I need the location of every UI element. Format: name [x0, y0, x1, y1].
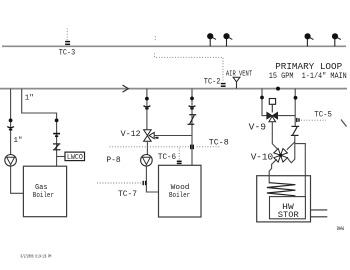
svg-text:AIR VENT: AIR VENT [226, 71, 252, 79]
air vent [233, 77, 240, 88]
svg-text:P-8: P-8 [106, 156, 120, 165]
sensor TC-5 [297, 118, 326, 122]
svg-text:TC-2: TC-2 [204, 78, 221, 87]
svg-text:STOR: STOR [278, 210, 299, 220]
svg-text:Boiler: Boiler [33, 192, 54, 200]
ball valve dot [260, 96, 264, 100]
wire branch to V-10 NE [287, 142, 295, 150]
wire V-9 drop [262, 89, 267, 116]
wire P-8 to wood boiler [146, 166, 158, 192]
ball valve dot [9, 119, 13, 123]
wire gas loop return riser [10, 89, 12, 155]
pump (gas boiler circulator) [5, 155, 17, 167]
primary loop line (second header) [0, 88, 347, 90]
gas boiler box [23, 166, 66, 217]
riser lollipop 3 [305, 33, 314, 46]
balance valve (gas) [53, 144, 61, 150]
svg-text:1": 1" [14, 137, 23, 145]
tank inner box [270, 197, 306, 219]
ball valve dot [294, 96, 298, 100]
wire V-10 to tank coil [269, 159, 277, 183]
sensor TC-6 [177, 148, 182, 164]
riser lollipop 1 [207, 33, 216, 46]
wire bypass to tank [295, 144, 306, 197]
balance valve (wood riser) [188, 115, 197, 125]
svg-text:Wood: Wood [171, 184, 190, 192]
sensor TC-7 [97, 181, 146, 185]
svg-text:Gas: Gas [35, 184, 48, 192]
svg-text:V-9: V-9 [249, 122, 266, 133]
sensor TC-2 dotted lead wire [155, 36, 223, 81]
valve V-9 (3-way) [267, 112, 278, 122]
wire V-12 to pump P-8 [146, 142, 148, 155]
svg-text:TC-7: TC-7 [118, 190, 137, 199]
wire pump to gas boiler [11, 166, 24, 193]
valve V-10 (4-way) [274, 149, 288, 163]
wire TC-5 riser [294, 89, 296, 127]
riser lollipop 2 [223, 33, 232, 46]
svg-text:TC-5: TC-5 [314, 111, 332, 120]
sensor TC-8 dotted line [110, 146, 221, 148]
svg-text:TC-6: TC-6 [158, 153, 176, 162]
valve V-12 (3-way) [144, 130, 159, 142]
wire balance valve to V-10 (SE) [287, 136, 295, 163]
svg-text:PRIMARY LOOP: PRIMARY LOOP [275, 61, 342, 72]
svg-text:TC-3: TC-3 [59, 49, 76, 58]
wire DHW return [311, 216, 328, 218]
wood boiler box [159, 165, 202, 217]
svg-text:DHW: DHW [337, 226, 345, 232]
valve V-9 actuator [269, 99, 275, 113]
svg-text:Boiler: Boiler [169, 192, 190, 200]
ball valve dot [55, 119, 59, 123]
svg-text:1": 1" [25, 94, 34, 102]
sensor TC-3 [65, 29, 70, 45]
sensor TC-2 [221, 84, 226, 87]
pump P-8 [141, 155, 153, 167]
svg-text:LWCO: LWCO [67, 154, 83, 162]
svg-text:V-12: V-12 [121, 129, 141, 139]
check valve (wood riser) [189, 106, 196, 109]
wire wood boiler riser [191, 89, 193, 166]
wire to LWCO [57, 156, 65, 158]
ball valve dot [145, 97, 149, 101]
tank coil [267, 183, 296, 196]
flow arrow on primary loop [123, 85, 129, 92]
wire V-9 to TC-5 riser [278, 115, 296, 117]
tank HW STOR outer box [257, 176, 311, 222]
svg-text:6/2/2008 8:24:28 PM: 6/2/2008 8:24:28 PM [21, 254, 52, 260]
riser lollipop 4 [332, 33, 341, 46]
ball valve dot [190, 97, 194, 101]
balance valve (tank riser) [291, 126, 299, 135]
main supply line (top header) [2, 45, 346, 47]
check valve (gas return) [7, 127, 14, 130]
wire V-9 to V-10 (NW) [272, 122, 278, 150]
check valve (gas supply) [53, 134, 60, 137]
wire wood loop drop to V-12 [146, 89, 148, 132]
svg-text:15 GPM 1-1/4" MAIN: 15 GPM 1-1/4" MAIN [269, 73, 347, 81]
wire V-12 side port to wood riser [154, 135, 192, 137]
LWCO box [65, 152, 85, 161]
svg-text:V-10: V-10 [251, 151, 274, 162]
wire DHW supply [311, 209, 328, 211]
wire stub at right edge [341, 120, 347, 127]
sensor TC-8 [191, 145, 194, 150]
junction dot on primary loop [276, 87, 280, 91]
wire gas supply drop [22, 89, 57, 166]
check valve (wood drop) [144, 106, 151, 109]
svg-text:TC-8: TC-8 [209, 139, 229, 148]
